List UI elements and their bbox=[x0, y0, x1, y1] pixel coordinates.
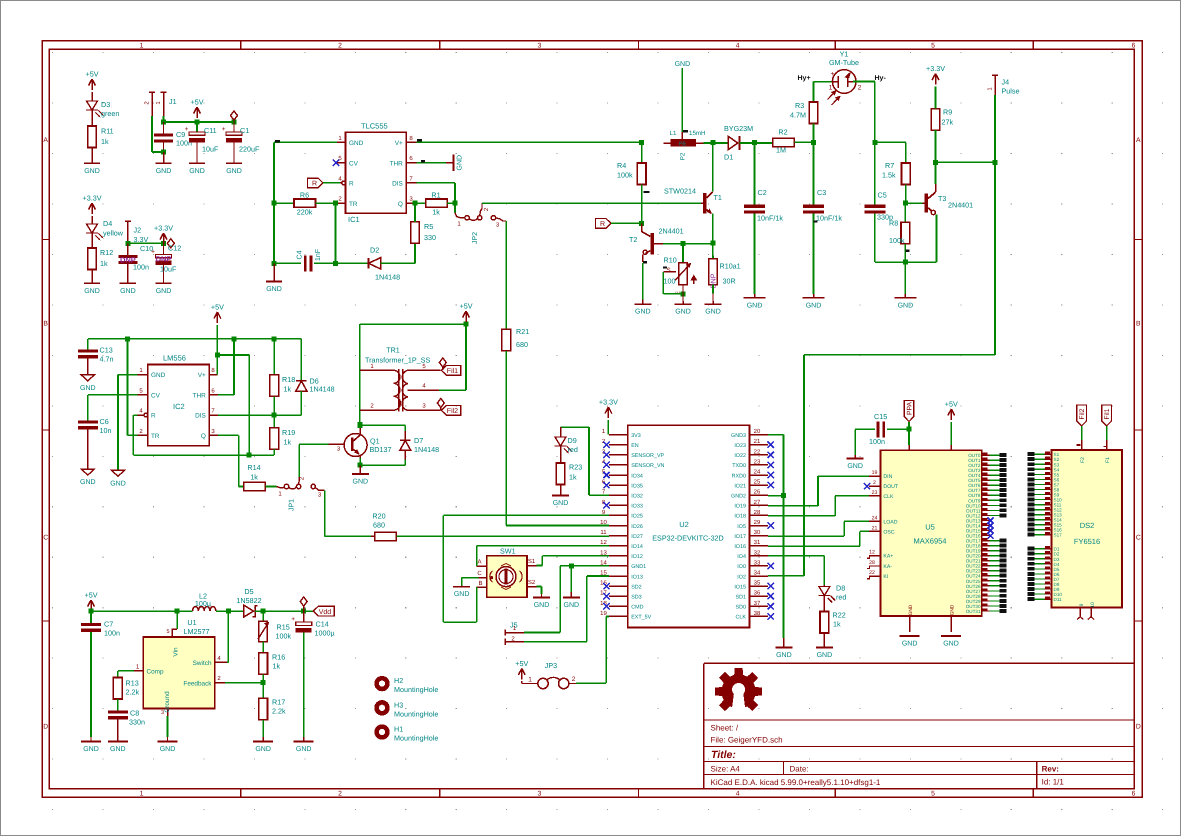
resistor R16 bbox=[262, 642, 264, 653]
IC2 pin5 CV bbox=[138, 394, 148, 396]
junction bbox=[261, 680, 266, 685]
svg-text:F2: F2 bbox=[1080, 457, 1086, 463]
svg-text:Switch: Switch bbox=[193, 660, 212, 667]
svg-text:D9: D9 bbox=[568, 436, 577, 445]
svg-text:THR: THR bbox=[193, 393, 207, 400]
IC2 pin7 DIS bbox=[209, 414, 218, 416]
svg-text:Fil1: Fil1 bbox=[447, 367, 458, 375]
black tick bbox=[417, 139, 422, 141]
IC1 pin4 R bbox=[337, 182, 342, 184]
svg-text:1k: 1k bbox=[833, 620, 841, 629]
wire Feedback net bbox=[225, 682, 263, 684]
svg-text:4: 4 bbox=[736, 43, 740, 50]
svg-text:Hy-: Hy- bbox=[875, 75, 887, 82]
svg-text:KA+: KA+ bbox=[883, 554, 893, 560]
svg-text:H3: H3 bbox=[394, 700, 403, 709]
svg-text:U1: U1 bbox=[187, 618, 196, 627]
svg-text:R6: R6 bbox=[300, 191, 309, 200]
wire IC2.8 V+ up bbox=[216, 325, 218, 375]
ground (C10) bbox=[120, 282, 136, 284]
svg-text:+5V: +5V bbox=[211, 303, 224, 312]
junction bbox=[357, 423, 362, 428]
svg-text:TR1: TR1 bbox=[386, 346, 400, 355]
svg-text:IO21: IO21 bbox=[734, 483, 746, 489]
svg-text:IO19: IO19 bbox=[734, 504, 746, 510]
ground (R22) bbox=[823, 633, 825, 647]
power +5V (LM2577) bbox=[88, 600, 95, 611]
ground (C5 node) bbox=[904, 262, 906, 294]
transistor Q1 BD137 bbox=[328, 443, 344, 445]
junction bbox=[232, 120, 237, 125]
svg-text:IO12: IO12 bbox=[631, 554, 643, 560]
trimmer R15 bbox=[262, 611, 264, 621]
IC1 pin2 TR bbox=[337, 202, 346, 204]
svg-text:GND: GND bbox=[156, 168, 172, 175]
junction bbox=[272, 201, 277, 206]
IC2 pin2 TR bbox=[138, 434, 148, 436]
junction bbox=[752, 140, 757, 145]
U1 pin Ground bbox=[167, 709, 169, 717]
ground (D9) bbox=[560, 485, 562, 496]
svg-text:GND: GND bbox=[296, 746, 312, 753]
svg-text:GND: GND bbox=[151, 372, 166, 379]
svg-text:330: 330 bbox=[424, 233, 436, 242]
wire IO17 to U5.LOAD bbox=[768, 535, 844, 537]
junction bbox=[811, 140, 816, 145]
svg-text:GND: GND bbox=[950, 604, 956, 615]
svg-text:GND: GND bbox=[80, 479, 96, 486]
svg-text:23: 23 bbox=[872, 490, 878, 496]
svg-text:GND1: GND1 bbox=[631, 564, 646, 570]
svg-text:11: 11 bbox=[600, 529, 607, 536]
wire J1.1 to +5V rail bbox=[163, 116, 165, 122]
resistor R4 bbox=[641, 142, 643, 163]
svg-text:35: 35 bbox=[754, 580, 761, 587]
svg-text:GND: GND bbox=[80, 385, 96, 392]
svg-text:1N4148: 1N4148 bbox=[375, 273, 400, 282]
svg-text:36: 36 bbox=[754, 590, 761, 597]
svg-text:1k: 1k bbox=[569, 473, 577, 482]
black tick bbox=[814, 220, 818, 222]
wire GND2 pin26 bbox=[768, 495, 783, 497]
svg-text:STW0214: STW0214 bbox=[664, 187, 696, 196]
ground (SW1.S2) bbox=[541, 594, 543, 597]
wire D1 to R2 bbox=[740, 142, 773, 144]
svg-text:FB: FB bbox=[679, 141, 686, 147]
svg-text:5: 5 bbox=[166, 629, 169, 635]
svg-text:4: 4 bbox=[736, 791, 740, 798]
svg-text:Size: A4: Size: A4 bbox=[711, 765, 741, 774]
wire IC1.6 THR to gnd bbox=[417, 162, 447, 164]
capacitor C13 bbox=[87, 339, 89, 350]
svg-text:Date:: Date: bbox=[790, 765, 809, 774]
wire TR1 rail bbox=[359, 324, 361, 424]
wire IO19 to U5.DIN bbox=[768, 505, 818, 507]
IC1 pin6 THR bbox=[406, 162, 416, 164]
resistor R21 bbox=[505, 221, 507, 329]
svg-text:+5V: +5V bbox=[85, 591, 98, 600]
svg-text:R12: R12 bbox=[100, 248, 113, 257]
pwr-flag diamond (Fil2) bbox=[437, 399, 444, 408]
svg-text:MAX6954: MAX6954 bbox=[914, 537, 947, 546]
capacitor C15 bbox=[876, 421, 879, 437]
svg-text:IO4: IO4 bbox=[737, 554, 746, 560]
ground (C3) bbox=[813, 294, 815, 298]
wire C15 right bbox=[887, 428, 909, 430]
svg-text:MountingHole: MountingHole bbox=[394, 685, 438, 694]
svg-text:C12: C12 bbox=[168, 244, 181, 253]
wire bottom node bbox=[875, 261, 937, 263]
wire IO18 to U5.CLK bbox=[768, 515, 835, 517]
capacitor C3 bbox=[813, 142, 815, 204]
svg-text:+3.3V: +3.3V bbox=[154, 224, 173, 233]
svg-text:25: 25 bbox=[754, 479, 761, 486]
svg-text:C: C bbox=[477, 570, 482, 577]
wire IC2.7 DIS bbox=[218, 414, 301, 416]
resistor R19 bbox=[273, 415, 275, 428]
IC2 pin6 THR bbox=[209, 394, 218, 396]
svg-text:Rev:: Rev: bbox=[1042, 764, 1059, 773]
svg-text:Fil2: Fil2 bbox=[1079, 408, 1086, 419]
wire IO26 to R21 bbox=[506, 525, 609, 527]
svg-text:GND2: GND2 bbox=[731, 494, 746, 500]
ground (D4) bbox=[91, 270, 93, 284]
svg-text:+: + bbox=[222, 126, 226, 133]
wire IO25 to SW1.B bbox=[443, 514, 609, 516]
ground (IC1 C4) bbox=[273, 263, 275, 281]
svg-text:C6: C6 bbox=[100, 417, 109, 426]
svg-text:R23: R23 bbox=[569, 463, 582, 472]
wire pin14 gnd drop bbox=[570, 566, 572, 592]
diode D5 1N5822 bbox=[244, 605, 254, 617]
jumper JP3 bbox=[521, 681, 523, 684]
svg-text:+3.3V: +3.3V bbox=[926, 64, 945, 73]
resistor R12 bbox=[91, 233, 93, 248]
svg-text:GND: GND bbox=[457, 155, 464, 171]
ground (C11) bbox=[189, 162, 205, 164]
svg-text:V+: V+ bbox=[198, 372, 206, 379]
wire T3 collector bbox=[935, 184, 937, 192]
wire Fil1 bbox=[1106, 426, 1108, 440]
svg-text:10nF/1k: 10nF/1k bbox=[816, 214, 842, 223]
svg-text:CMD: CMD bbox=[631, 605, 643, 611]
wire R label to IC1.4 bbox=[323, 182, 340, 184]
wire JP1.2 to Q1 base bbox=[298, 444, 300, 477]
svg-text:22: 22 bbox=[754, 448, 761, 455]
svg-text:29: 29 bbox=[754, 519, 761, 526]
capacitor C1 bbox=[233, 122, 235, 132]
DS2 bottom pin b bbox=[1090, 608, 1092, 617]
svg-text:OSC: OSC bbox=[883, 529, 894, 535]
svg-text:GND: GND bbox=[83, 746, 99, 753]
junction bbox=[272, 261, 277, 266]
GM tube Y1 bbox=[832, 70, 856, 94]
svg-text:KA-: KA- bbox=[883, 564, 892, 570]
pwr-flag diamond (C1) bbox=[231, 111, 238, 120]
svg-text:GND: GND bbox=[675, 61, 691, 68]
IC IC2 LM556 body bbox=[148, 365, 210, 446]
svg-text:THR: THR bbox=[390, 160, 404, 167]
ground (C13) triangle bbox=[81, 375, 94, 381]
IC IC1 TLC555 body bbox=[346, 132, 407, 213]
svg-text:3: 3 bbox=[538, 791, 542, 798]
svg-text:J4: J4 bbox=[1002, 78, 1010, 87]
svg-text:6: 6 bbox=[1132, 43, 1136, 50]
svg-text:U5: U5 bbox=[925, 523, 935, 532]
wire GND3 pin20 bbox=[768, 434, 783, 436]
DS2 left pins comb bbox=[1028, 452, 1035, 456]
U1 pin Comp bbox=[134, 670, 143, 672]
svg-text:R18: R18 bbox=[282, 375, 295, 384]
svg-text:H1: H1 bbox=[394, 725, 403, 734]
svg-text:D2: D2 bbox=[370, 246, 379, 255]
resistor R6 bbox=[274, 202, 294, 204]
svg-text:R9: R9 bbox=[943, 108, 952, 117]
svg-text:R: R bbox=[600, 221, 605, 228]
svg-text:R11: R11 bbox=[101, 127, 114, 136]
U5 gnd pin b bbox=[950, 616, 952, 632]
svg-text:MountingHole: MountingHole bbox=[394, 734, 438, 743]
svg-text:JP1: JP1 bbox=[289, 499, 296, 511]
junction bbox=[161, 120, 166, 125]
svg-text:IO15: IO15 bbox=[734, 584, 746, 590]
junction bbox=[639, 140, 644, 145]
wire gnd bottom bbox=[274, 262, 301, 264]
svg-text:6: 6 bbox=[1132, 791, 1136, 798]
svg-text:23: 23 bbox=[754, 458, 761, 465]
svg-text:GND: GND bbox=[266, 286, 282, 293]
svg-text:+5V: +5V bbox=[945, 400, 958, 409]
svg-text:KiCad E.D.A. kicad 5.99.0+rea: KiCad E.D.A. kicad 5.99.0+really5.1.10+d… bbox=[711, 778, 881, 787]
wire IC1.7 DIS down bbox=[417, 182, 456, 184]
svg-text:GND: GND bbox=[120, 288, 136, 295]
svg-text:B: B bbox=[43, 320, 48, 327]
svg-text:J2: J2 bbox=[134, 226, 142, 235]
svg-text:D11: D11 bbox=[1054, 597, 1063, 602]
svg-text:10uF: 10uF bbox=[160, 265, 177, 274]
svg-text:24: 24 bbox=[872, 515, 878, 521]
svg-text:2: 2 bbox=[338, 791, 342, 798]
global label R (IC1) bbox=[308, 178, 324, 188]
junction bbox=[195, 120, 200, 125]
svg-text:D4: D4 bbox=[103, 219, 112, 228]
wire R9 bottom bbox=[935, 130, 937, 162]
pwr-flag diamond (Fil1) bbox=[439, 358, 446, 367]
svg-text:GND: GND bbox=[160, 746, 176, 753]
svg-text:28: 28 bbox=[869, 560, 875, 566]
svg-text:SW1: SW1 bbox=[500, 547, 516, 556]
svg-text:R5: R5 bbox=[424, 222, 433, 231]
DS2 bottom pin a bbox=[1079, 608, 1081, 617]
svg-text:24: 24 bbox=[754, 469, 761, 476]
svg-text:Id: 1/1: Id: 1/1 bbox=[1042, 777, 1065, 786]
svg-text:C3: C3 bbox=[817, 188, 826, 197]
svg-text:30R: 30R bbox=[723, 277, 736, 286]
svg-text:R20: R20 bbox=[372, 512, 385, 521]
wire V+ rail east bbox=[417, 141, 642, 143]
junction bbox=[125, 241, 130, 246]
svg-text:IC1: IC1 bbox=[348, 215, 360, 224]
svg-text:GND: GND bbox=[110, 746, 126, 753]
wire V+ tap right bbox=[217, 354, 249, 356]
svg-text:10nF/1k: 10nF/1k bbox=[757, 214, 783, 223]
svg-text:1.5k: 1.5k bbox=[882, 171, 896, 180]
svg-text:SD0: SD0 bbox=[736, 605, 747, 611]
svg-text:GND: GND bbox=[255, 746, 271, 753]
svg-text:1k: 1k bbox=[101, 137, 109, 146]
wire IC2.6 THR bbox=[218, 394, 234, 396]
wire Hy- segment bbox=[853, 81, 875, 83]
wire Switch up bbox=[227, 661, 228, 663]
connector J2 bbox=[127, 221, 129, 243]
power +3.3V (U2.1) bbox=[605, 407, 612, 418]
ground (IC2.1) triangle bbox=[112, 470, 125, 476]
svg-text:R2: R2 bbox=[778, 128, 787, 137]
svg-text:DNP: DNP bbox=[156, 255, 172, 264]
jumper JP2 bbox=[454, 203, 456, 212]
svg-text:R7: R7 bbox=[885, 161, 894, 170]
ground (R17) bbox=[253, 741, 273, 743]
svg-text:GND: GND bbox=[898, 302, 914, 309]
svg-text:red: red bbox=[836, 593, 846, 602]
svg-text:C4: C4 bbox=[297, 250, 304, 259]
svg-text:GND: GND bbox=[189, 168, 205, 175]
resistor R18 bbox=[273, 339, 275, 375]
trimmer R10 bbox=[682, 244, 684, 263]
svg-text:PPA: PPA bbox=[907, 401, 914, 415]
ground (Q1) bbox=[359, 465, 361, 474]
junction bbox=[215, 353, 220, 358]
svg-text:15mH: 15mH bbox=[689, 130, 706, 137]
svg-text:1k: 1k bbox=[100, 259, 108, 268]
svg-text:DIS: DIS bbox=[195, 413, 206, 420]
black tick bbox=[906, 250, 910, 252]
svg-text:S: S bbox=[667, 267, 671, 274]
svg-text:2.2k: 2.2k bbox=[126, 688, 140, 697]
svg-text:22: 22 bbox=[869, 570, 875, 576]
svg-text:Transformer_1P_SS: Transformer_1P_SS bbox=[365, 356, 430, 365]
resistor R8 bbox=[904, 203, 906, 222]
svg-text:GND: GND bbox=[349, 140, 364, 147]
svg-text:GND: GND bbox=[943, 641, 959, 648]
resistor R11 bbox=[91, 110, 93, 126]
junction bbox=[272, 413, 277, 418]
U1 pin Switch bbox=[215, 661, 227, 663]
svg-text:red: red bbox=[568, 445, 578, 454]
svg-text:IO27: IO27 bbox=[631, 534, 643, 540]
svg-text:D1: D1 bbox=[724, 153, 733, 162]
svg-text:GND: GND bbox=[454, 591, 470, 598]
svg-text:DIS: DIS bbox=[392, 181, 403, 188]
svg-text:32: 32 bbox=[754, 549, 761, 556]
resistor R23 bbox=[560, 446, 562, 463]
svg-text:+3.3V: +3.3V bbox=[599, 398, 618, 407]
svg-text:1: 1 bbox=[140, 791, 144, 798]
svg-text:R10: R10 bbox=[664, 256, 677, 265]
junction bbox=[333, 261, 338, 266]
svg-text:IO35: IO35 bbox=[631, 483, 643, 489]
svg-text:R14: R14 bbox=[247, 463, 260, 472]
svg-text:2: 2 bbox=[338, 43, 342, 50]
svg-text:T2: T2 bbox=[629, 235, 637, 244]
svg-text:D3: D3 bbox=[101, 100, 110, 109]
svg-text:27: 27 bbox=[754, 499, 761, 506]
junction bbox=[569, 563, 574, 568]
connector J1 bbox=[149, 91, 155, 93]
connector J4 bbox=[992, 74, 998, 76]
resistor R22 bbox=[823, 596, 825, 612]
title block bbox=[703, 663, 705, 788]
svg-text:D: D bbox=[43, 723, 48, 730]
svg-text:1N5822: 1N5822 bbox=[236, 596, 261, 605]
svg-text:+: + bbox=[151, 249, 155, 256]
svg-text:C7: C7 bbox=[104, 620, 113, 629]
power +5V (JP3) bbox=[518, 669, 525, 680]
svg-text:Title:: Title: bbox=[711, 749, 736, 761]
junction bbox=[226, 609, 231, 614]
junction bbox=[272, 336, 277, 341]
U5 left pins bbox=[869, 475, 880, 477]
svg-text:GND: GND bbox=[902, 641, 918, 648]
wire R10a1 bottom bbox=[712, 285, 714, 294]
wire P2 to D1 bbox=[704, 142, 728, 144]
svg-text:GND: GND bbox=[908, 604, 914, 615]
junction bbox=[681, 291, 686, 296]
svg-text:F1: F1 bbox=[1105, 457, 1111, 463]
svg-text:R19: R19 bbox=[282, 428, 295, 437]
resistor R10a1 (DNP) bbox=[712, 244, 714, 259]
IC U1 LM2577 body bbox=[143, 637, 215, 709]
junction bbox=[903, 201, 908, 206]
diode D7 bbox=[404, 431, 406, 440]
resistor R14 bbox=[244, 482, 266, 490]
svg-text:R15: R15 bbox=[277, 623, 290, 632]
ground (C2) bbox=[754, 294, 756, 298]
black tick bbox=[644, 191, 650, 193]
ground (C1) bbox=[226, 162, 242, 164]
svg-text:1k: 1k bbox=[284, 385, 292, 394]
svg-text:GND: GND bbox=[635, 309, 651, 316]
capacitor C11 bbox=[196, 120, 198, 132]
svg-text:C1: C1 bbox=[240, 126, 249, 135]
junction bbox=[639, 221, 644, 226]
svg-text:DNP: DNP bbox=[711, 273, 718, 288]
svg-text:SENSOR_VN: SENSOR_VN bbox=[631, 463, 664, 469]
wire R4 to R junction bbox=[641, 185, 643, 224]
LED D3 bbox=[91, 92, 93, 101]
svg-text:1nF: 1nF bbox=[315, 249, 322, 261]
ground (U2 right) bbox=[783, 638, 785, 647]
svg-text:1M: 1M bbox=[776, 146, 786, 155]
svg-text:C14: C14 bbox=[316, 620, 329, 629]
svg-text:B: B bbox=[478, 580, 482, 587]
wire +5V top rail bbox=[88, 338, 302, 340]
wire R7 to T3 base bbox=[905, 185, 907, 204]
wire JP2.2 to T1 base bbox=[482, 202, 701, 204]
svg-text:IO5: IO5 bbox=[737, 524, 746, 530]
svg-text:+: + bbox=[291, 616, 295, 623]
IC DS2 FY6516 body bbox=[1052, 450, 1123, 608]
wire +5V rail bottom bbox=[91, 610, 193, 612]
wire IC2.4 R net bbox=[133, 414, 137, 416]
svg-text:IO17: IO17 bbox=[734, 534, 746, 540]
IC1 pin3 Q bbox=[406, 202, 416, 204]
wire EXT_5V to JP3.2 bbox=[606, 616, 609, 618]
wire R10 wiper loop bbox=[663, 271, 676, 273]
wire J1.2 to gnd node bbox=[151, 116, 153, 152]
svg-text:100k: 100k bbox=[617, 171, 633, 180]
svg-text:100µ: 100µ bbox=[195, 599, 211, 608]
